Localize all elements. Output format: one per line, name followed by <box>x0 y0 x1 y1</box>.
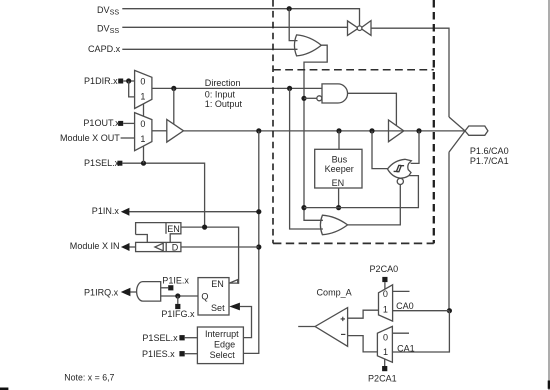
wire Module X OUT <box>121 137 135 139</box>
label P1IE.x square <box>168 285 173 290</box>
comparator Comp_A <box>315 308 348 347</box>
figure right border <box>548 0 550 390</box>
wire DVSS1 <box>122 9 359 26</box>
figure bottom-left border mark <box>0 387 8 390</box>
wire comparator minus input <box>348 336 378 352</box>
schmitt output bubble <box>397 178 403 184</box>
wire latch D to input vertical <box>181 246 259 248</box>
svg-text:Direction: Direction <box>205 78 241 88</box>
svg-text:P1IFG.x: P1IFG.x <box>161 309 195 319</box>
wire comparator plus input <box>348 310 379 318</box>
node comparator tap <box>447 308 452 313</box>
or-gate U6 (bus keeper enable) <box>320 215 347 235</box>
pad P1.6 hexagon <box>465 126 488 135</box>
svg-text:CAPD.x: CAPD.x <box>88 44 121 54</box>
label P1IFG.x square <box>175 304 180 309</box>
svg-text:P1OUT.x: P1OUT.x <box>83 118 120 128</box>
wire P1IE.x <box>161 287 169 289</box>
svg-text:Module X IN: Module X IN <box>70 241 120 251</box>
input latch EN shape <box>136 223 181 243</box>
mux M1 (direction) <box>135 70 152 108</box>
wire P1SEL.x to edge select <box>185 337 198 339</box>
svg-text:Module X OUT: Module X OUT <box>60 133 120 143</box>
svg-text:Select: Select <box>210 350 236 360</box>
latch D compartment divider <box>165 242 167 251</box>
wire mux2 to buffer <box>152 130 167 132</box>
svg-text:Comp_A: Comp_A <box>317 288 353 298</box>
svg-text:P1SEL.x: P1SEL.x <box>142 333 178 343</box>
wire control to output buffer <box>173 88 175 124</box>
wire mux4 stub 0 <box>392 332 409 334</box>
svg-text:Interrupt: Interrupt <box>205 329 239 339</box>
wire rail to schmitt input <box>372 131 388 169</box>
flip-flop U8 box <box>198 278 229 315</box>
wire P1DIR.x <box>123 80 134 82</box>
arrow Module X IN <box>121 243 130 251</box>
wire CA1 row <box>392 311 449 352</box>
wire P1IRQ.x <box>130 291 137 293</box>
interrupt edge select box <box>197 327 243 364</box>
svg-text:P1SEL.x: P1SEL.x <box>84 158 120 168</box>
svg-text:EN: EN <box>332 178 345 188</box>
dashed box bottom <box>273 242 434 244</box>
wire input vertical <box>243 131 258 354</box>
svg-text:1: 1 <box>383 305 388 315</box>
node direction buffer control <box>171 86 176 91</box>
svg-text:CA1: CA1 <box>397 344 415 354</box>
mux M2 (output) <box>135 113 152 151</box>
wire OR1 output <box>304 45 327 220</box>
wire P1OUT.x <box>123 122 134 124</box>
node P1IN tap <box>256 209 261 214</box>
wire select chain mux2 <box>143 146 145 163</box>
dashed divider top <box>273 69 434 71</box>
wire CAPD.x <box>122 48 297 50</box>
buffer U2 (output driver 1) <box>167 120 184 143</box>
bus keeper box <box>315 149 362 188</box>
node latch EN / P1SEL <box>202 225 207 230</box>
node input branch <box>256 128 261 133</box>
wire P1IFG tap <box>177 296 179 304</box>
svg-text:P2CA1: P2CA1 <box>368 373 397 383</box>
wire NAND output to buffer enable <box>348 93 397 125</box>
svg-text:1: 1 <box>140 134 145 144</box>
hysteresis symbol <box>394 165 404 171</box>
node schmitt tap 2 <box>416 128 421 133</box>
wire mux3 stub 0 <box>393 290 410 292</box>
svg-text:P1IE.x: P1IE.x <box>162 276 189 286</box>
wire P1IES.x to edge select <box>185 353 198 355</box>
svg-text:CA0: CA0 <box>396 301 414 311</box>
latch EN compartment divider <box>165 223 167 234</box>
label P1SEL.x square 2 <box>179 335 184 340</box>
node direction to OR2 <box>287 86 292 91</box>
wire AND to flip-flop Q <box>161 295 198 297</box>
comparator plus sign <box>341 317 345 321</box>
svg-text:1: 1 <box>140 91 145 101</box>
wire select chain mux1 <box>143 104 145 116</box>
wire bus keeper EN <box>338 188 340 208</box>
svg-text:Set: Set <box>211 303 225 313</box>
comparator minus sign <box>341 333 345 335</box>
or-gate U1 (CAPD enable) <box>294 35 321 56</box>
label P1OUT.x square <box>118 121 123 126</box>
arrow P1IRQ.x <box>121 288 131 297</box>
node module input tap <box>256 244 261 249</box>
node bus keeper EN junction <box>336 205 341 210</box>
dashed box right edge <box>433 0 435 243</box>
wire bus keeper to rail <box>338 131 340 149</box>
wire P2CA1 select stem <box>384 359 386 366</box>
wire latch EN <box>181 227 239 283</box>
svg-text:P2CA0: P2CA0 <box>370 264 399 274</box>
svg-text:DVSS: DVSS <box>97 23 119 35</box>
analog switch S1 <box>348 21 372 36</box>
svg-text:Keeper: Keeper <box>325 164 354 174</box>
svg-text:Q: Q <box>201 291 208 301</box>
wire P1IN.x <box>129 211 259 213</box>
wire pad diagonals <box>449 117 465 311</box>
svg-text:EN: EN <box>167 224 180 234</box>
arrow Set <box>229 303 240 311</box>
open arrow flip-flop EN <box>229 280 237 284</box>
wire Set loop <box>240 307 252 338</box>
svg-text:P1.6/CA0: P1.6/CA0 <box>470 146 509 156</box>
node bus keeper EN wire left <box>301 205 306 210</box>
wire P2CA0 select stem <box>384 282 386 289</box>
svg-text:0: 0 <box>383 289 388 299</box>
buffer U4 (pad driver) <box>389 120 404 142</box>
svg-text:0: Input: 0: Input <box>205 89 236 99</box>
mux M3 (CA0) <box>379 285 393 321</box>
wire switch output to pad <box>371 28 449 117</box>
input latch D box <box>136 242 181 251</box>
node P1SEL select chain <box>141 161 146 166</box>
node P1IFG tap <box>175 293 180 298</box>
svg-text:D: D <box>172 243 179 253</box>
svg-text:P1IES.x: P1IES.x <box>142 349 175 359</box>
label P1DIR.x square <box>118 79 123 84</box>
wire module X IN <box>129 246 136 248</box>
mux M4 (CA1) <box>377 326 392 362</box>
label P1SEL.x square <box>117 161 122 166</box>
wire DVSS2 <box>122 26 347 28</box>
svg-text:0: 0 <box>140 119 145 129</box>
node P1DIR branch <box>126 78 131 83</box>
node NAND lower input <box>301 96 306 101</box>
dashed box left edge <box>272 0 274 243</box>
svg-text:0: 0 <box>383 332 388 342</box>
node schmitt input tap <box>369 128 374 133</box>
wire to NAND bubble <box>304 97 317 99</box>
wire P1SEL.x <box>122 163 204 227</box>
svg-text:P1IRQ.x: P1IRQ.x <box>84 288 119 298</box>
wire comparator output <box>298 326 315 328</box>
svg-text:EN: EN <box>211 279 224 289</box>
wire rail to schmitt upper notch <box>411 131 419 164</box>
arrow P1IN.x <box>121 208 130 216</box>
wire Direction <box>152 87 322 89</box>
label P2CA1 square <box>382 366 387 371</box>
wire output rail to pad <box>184 130 466 132</box>
svg-text:P1IN.x: P1IN.x <box>92 206 120 216</box>
nand gate U3 <box>322 84 348 103</box>
svg-text:Note: x = 6,7: Note: x = 6,7 <box>64 372 114 382</box>
node on DVSS1 <box>287 6 292 11</box>
wire P1DIR branch to mux1 input 1 <box>129 81 135 97</box>
svg-text:1: 1 <box>383 347 388 357</box>
and gate U7 (interrupt) <box>137 282 161 302</box>
wire EN rail to schmitt <box>304 176 418 208</box>
wire direction branch to OR2 lower input <box>290 88 323 229</box>
svg-text:P1.7/CA1: P1.7/CA1 <box>470 156 509 166</box>
latch clock triangle <box>155 243 163 251</box>
svg-text:P1DIR.x: P1DIR.x <box>84 76 118 86</box>
svg-text:DVSS: DVSS <box>97 5 119 17</box>
schmitt trigger U5 <box>388 159 412 178</box>
wire DVSS1 branch to OR1 <box>289 9 297 41</box>
svg-text:0: 0 <box>140 77 145 87</box>
wire schmitt bubble to OR2 output rail <box>348 185 401 225</box>
svg-text:1: Output: 1: Output <box>205 99 243 109</box>
label P2CA0 square <box>382 277 387 282</box>
svg-text:Edge: Edge <box>214 340 235 350</box>
node bus keeper tap <box>336 128 341 133</box>
label P1IES.x square <box>179 351 184 356</box>
wire CA0 row <box>393 310 450 312</box>
